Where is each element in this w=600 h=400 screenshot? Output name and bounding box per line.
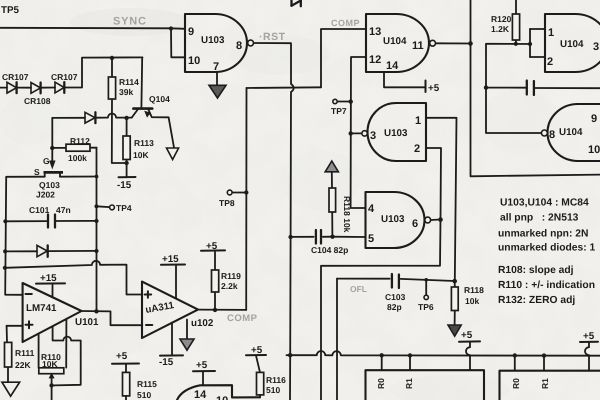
svg-text:CR108: CR108	[24, 96, 51, 106]
wire R110 left terminal	[38, 335, 40, 368]
svg-text:+5: +5	[583, 331, 595, 342]
svg-text:14: 14	[386, 60, 399, 72]
power -15 U102	[160, 323, 183, 356]
wire diode row 1	[0, 57, 143, 87]
ground below R118b	[448, 325, 461, 336]
wire U104 pin 12 to latch	[351, 57, 366, 208]
wire U104 pins1-2 tie	[530, 29, 545, 57]
svg-text:13: 13	[369, 26, 381, 38]
net label N top edge	[292, 0, 301, 6]
diode row 2	[85, 112, 95, 123]
wire U103 pin 9	[171, 27, 185, 30]
svg-text:TP6: TP6	[418, 302, 434, 312]
svg-text:R1: R1	[404, 378, 414, 389]
nand gate U103 pins 1,2,3 mirrored	[362, 103, 426, 161]
node box B pins	[380, 353, 413, 358]
svg-text:7: 7	[213, 61, 219, 73]
svg-text:unmarked npn: 2N: unmarked npn: 2N	[498, 229, 588, 240]
wire bottom rail with hops	[287, 351, 600, 356]
svg-text:C103: C103	[385, 292, 406, 302]
gate bottom partial pins 14,10	[177, 385, 260, 400]
svg-text:R1: R1	[540, 378, 550, 389]
wire COMP horizontal y88	[247, 86, 322, 89]
test point TP4	[110, 205, 115, 210]
svg-text:47n: 47n	[56, 205, 71, 215]
svg-text:SYNC: SYNC	[113, 16, 147, 28]
svg-text:82p: 82p	[387, 302, 402, 312]
wire U104 pin 14 to +5	[384, 72, 426, 92]
svg-text:U104: U104	[559, 127, 583, 138]
svg-text:G: G	[43, 156, 50, 166]
svg-text:Q103: Q103	[39, 180, 60, 190]
svg-text:R0: R0	[376, 378, 386, 389]
svg-text:R118 10k: R118 10k	[342, 196, 352, 233]
svg-text:OFL: OFL	[350, 284, 367, 294]
svg-text:+5: +5	[116, 351, 128, 362]
potentiometer R110 wiper arrow	[49, 373, 55, 388]
nand gate U104 pin 8 mirrored	[541, 104, 600, 161]
ground Q104 emitter	[167, 148, 179, 160]
svg-text:2: 2	[414, 143, 420, 155]
svg-text:U104: U104	[560, 39, 584, 50]
wire TP4 stub	[94, 204, 109, 208]
node line B / R118b	[452, 279, 457, 284]
diode CR107 second	[55, 82, 64, 93]
wire diode row 3 leads	[5, 250, 96, 253]
svg-text:COMP: COMP	[227, 313, 258, 324]
node C101 ends	[3, 219, 98, 224]
wire x52 vertical	[50, 118, 54, 150]
node pin11/long vertical	[468, 41, 473, 46]
svg-text:100k: 100k	[68, 153, 87, 163]
op-amp U102 uA311	[142, 282, 198, 338]
power +15 U101	[36, 283, 65, 297]
resistor R116	[257, 372, 264, 397]
resistor R113	[123, 136, 130, 160]
resistor R120	[512, 14, 519, 40]
nand gate U104 pins 1,2,3	[545, 14, 600, 72]
svg-text:+15: +15	[40, 273, 57, 284]
svg-text:u102: u102	[191, 318, 214, 329]
node R113 bottom	[124, 161, 128, 165]
wire U103 pin6 output stub	[431, 217, 443, 222]
svg-text:R108: slope adj: R108: slope adj	[498, 265, 574, 276]
svg-text:U103,U104 : MC84: U103,U104 : MC84	[500, 198, 589, 209]
svg-text:R114: R114	[119, 77, 139, 87]
wire TP7 stub	[337, 99, 353, 103]
wire R112 leads	[52, 147, 96, 149]
wire OFL line B through C103 TP6	[337, 279, 455, 400]
svg-text:unmarked diodes: 1: unmarked diodes: 1	[498, 243, 596, 254]
power +5 R115	[112, 364, 139, 373]
ground below R111	[2, 382, 20, 396]
svg-text:-15: -15	[117, 180, 132, 191]
svg-text:14: 14	[194, 389, 207, 400]
jfet Q103	[44, 148, 64, 177]
power +5 box C	[580, 341, 598, 343]
svg-text:9: 9	[591, 113, 597, 125]
svg-text:R115: R115	[137, 379, 157, 389]
wire R118 stems and arrow stem	[331, 172, 334, 237]
svg-text:+5: +5	[251, 345, 263, 356]
svg-text:R110 : +/- indication: R110 : +/- indication	[498, 280, 595, 291]
svg-text:10K: 10K	[133, 150, 149, 160]
svg-text:10: 10	[188, 55, 200, 67]
wire U103 pin 10	[171, 28, 185, 57]
wire box C pins	[515, 356, 544, 371]
resistor R114	[108, 77, 115, 99]
wire R119 stems	[214, 252, 216, 310]
power +15 U102	[161, 265, 185, 299]
resistor R118 lower	[451, 287, 458, 311]
svg-text:CR107: CR107	[2, 72, 29, 82]
svg-text:1: 1	[415, 115, 421, 127]
svg-text:9: 9	[188, 26, 194, 38]
svg-text:U103: U103	[201, 35, 225, 46]
svg-text:U104: U104	[383, 36, 407, 47]
power +5 gate pin14	[193, 371, 215, 385]
svg-text:+5: +5	[206, 241, 218, 252]
nand gate U103 pins 4,5,6	[366, 192, 431, 248]
svg-text:CR107: CR107	[51, 72, 78, 82]
power +5 box B	[459, 340, 480, 342]
svg-text:C101: C101	[29, 205, 50, 215]
resistor R118 latch	[329, 188, 336, 212]
wire C101 leads	[5, 220, 96, 222]
wire cap row right to edge	[534, 87, 600, 89]
svg-text:R0: R0	[511, 378, 521, 389]
node y266 left end	[3, 266, 7, 270]
op-amp plus sign U101	[26, 321, 33, 328]
wire COMP vertical to U102 output	[245, 88, 247, 310]
capacitor C101	[48, 215, 55, 228]
wire R110 offset stems and wiper loop	[53, 320, 81, 386]
ground U103 pin 7	[209, 85, 226, 98]
wire cap row left	[486, 87, 526, 89]
test point TP6	[424, 295, 428, 299]
node cap row	[484, 85, 488, 89]
nand gate U104 pins 13,12,11	[366, 14, 436, 72]
wire U103 pin 7 stem	[216, 72, 218, 85]
op-amp U101 LM741	[23, 283, 82, 342]
box B resistor network	[366, 370, 485, 400]
svg-text:+5: +5	[428, 83, 440, 94]
wire R120 stems	[515, 0, 517, 44]
svg-text:1: 1	[548, 27, 554, 39]
svg-text:6: 6	[412, 218, 418, 230]
capacitor C104	[316, 230, 321, 244]
wire U103 pin3 bubble stub	[351, 132, 362, 134]
svg-text:U103: U103	[381, 214, 405, 225]
node U103 pin3 output junction	[349, 131, 353, 135]
potentiometer R110 body	[39, 368, 64, 374]
svg-text:10K: 10K	[42, 359, 58, 369]
diode CR108	[31, 83, 41, 94]
wire U102 output COMP	[198, 308, 246, 312]
svg-text:10: 10	[216, 395, 228, 400]
node C104/R118	[330, 235, 334, 239]
op-amp minus sign U101	[26, 293, 32, 295]
diode row 3	[37, 245, 48, 256]
svg-text:2.2k: 2.2k	[221, 281, 238, 291]
svg-text:+5: +5	[461, 330, 473, 341]
svg-text:R120: R120	[491, 14, 512, 24]
diode CR107 first	[7, 82, 17, 93]
svg-text:5: 5	[368, 233, 374, 245]
svg-text:LM741: LM741	[26, 303, 57, 314]
resistor R119	[212, 270, 219, 292]
ground U102	[180, 320, 194, 351]
power +5 above R119	[201, 249, 225, 251]
svg-text:R118: R118	[464, 285, 484, 295]
svg-text:U101: U101	[75, 317, 99, 328]
svg-text:Q104: Q104	[149, 94, 170, 104]
wire U103 pin2 cross-couple	[426, 148, 441, 220]
wire +5 stem into box C with hop	[585, 343, 589, 371]
wire long vertical x470 to bottom right rail	[471, 0, 600, 176]
capacitor C103	[392, 274, 399, 288]
svg-text:J202: J202	[36, 190, 55, 200]
wire corner net to U104 pins 1-2	[486, 44, 541, 133]
wire +5 stem into box B with hop	[466, 342, 470, 370]
svg-text:22K: 22K	[15, 360, 31, 370]
test point TP7	[333, 99, 337, 103]
wire TP8 stub	[232, 190, 249, 194]
nand gate U103 pins 9,10,8	[185, 14, 254, 72]
wire U103 pin5 row with C104	[291, 236, 366, 238]
svg-text:S: S	[34, 167, 40, 177]
wire jfet source to minus input	[5, 177, 45, 295]
capacitor top-right	[527, 81, 534, 96]
svg-text:1.2K: 1.2K	[491, 24, 510, 34]
wire wiper to bottom edge	[51, 385, 53, 400]
svg-text:-15: -15	[159, 357, 174, 368]
wire R113 stems	[126, 118, 128, 177]
wire jfet drain	[60, 175, 98, 179]
svg-text:10: 10	[588, 144, 600, 156]
wire output6 net down-left to bottom	[321, 220, 441, 400]
wire U103 pin1 cross-couple	[426, 118, 457, 281]
wire U101 output to U102 minus	[82, 309, 143, 325]
wire R114 stems down to -15	[112, 58, 127, 163]
svg-text:2: 2	[547, 56, 553, 68]
svg-text:510: 510	[266, 385, 280, 395]
wire R118b stems	[454, 281, 456, 324]
svg-text:8: 8	[236, 40, 242, 52]
node R120 bottom	[514, 42, 518, 46]
wire U101 plus input to R111	[7, 326, 23, 382]
svg-text:U103: U103	[384, 128, 408, 139]
svg-text:3: 3	[370, 130, 376, 142]
wire U104 pin 11 output	[436, 42, 471, 44]
svg-text:11: 11	[412, 40, 424, 52]
node tie mid	[528, 42, 532, 46]
box C resistor network	[500, 371, 600, 400]
svg-text:39k: 39k	[119, 87, 133, 97]
svg-text:3: 3	[593, 41, 599, 53]
transistor Q104	[132, 57, 174, 147]
svg-text:TP5: TP5	[1, 5, 20, 16]
svg-text:R132: ZERO adj: R132: ZERO adj	[498, 295, 575, 306]
svg-text:TP7: TP7	[331, 106, 347, 116]
wire U104 pin 13	[321, 29, 366, 87]
node box C pins	[513, 353, 547, 358]
svg-text:12: 12	[369, 54, 381, 66]
power +5 R116	[246, 355, 266, 372]
op-amp plus sign U102	[145, 291, 152, 298]
power -15 bar under R113	[119, 176, 136, 178]
svg-text:TP8: TP8	[219, 198, 235, 208]
svg-text:R111: R111	[15, 348, 35, 358]
node diode row3 ends	[3, 249, 99, 254]
test point TP8	[227, 190, 232, 195]
svg-text:+5: +5	[196, 360, 208, 371]
svg-text:8: 8	[549, 129, 555, 141]
svg-text:C104 82p: C104 82p	[311, 245, 348, 255]
wire plus-input net y266 with hop to U102 plus	[5, 261, 142, 295]
wire TP5/SYNC net	[0, 27, 171, 30]
node RST/rail junction	[288, 353, 292, 357]
wire RST net from U103 pin 8 down to bottom	[254, 43, 294, 400]
svg-text:all pnp : 2N513: all pnp : 2N513	[500, 213, 579, 224]
resistor R112	[66, 144, 90, 151]
svg-text:·RST: ·RST	[259, 31, 286, 43]
svg-text:R116: R116	[266, 375, 286, 385]
wire x96 vertical R112 to U101 out	[96, 148, 98, 312]
node R114 top tap	[110, 56, 114, 60]
svg-text:R113: R113	[134, 138, 154, 148]
wire box B pins	[382, 355, 410, 370]
node Q104 base / R113 tap	[124, 116, 128, 120]
resistor R111	[5, 342, 12, 367]
svg-text:R112: R112	[70, 136, 90, 146]
svg-text:10k: 10k	[465, 296, 479, 306]
svg-text:510: 510	[137, 390, 151, 400]
op-amp minus sign U102	[146, 324, 152, 326]
arrow above R118	[325, 161, 338, 172]
svg-text:COMP: COMP	[331, 18, 360, 28]
wire diode row 2 with hop	[52, 114, 132, 118]
svg-text:TP4: TP4	[116, 203, 132, 213]
resistor R115	[123, 372, 130, 399]
wire TP6 stub	[424, 278, 428, 295]
svg-text:4: 4	[368, 203, 375, 215]
node RST/C104 junction	[288, 235, 292, 239]
svg-text:+15: +15	[162, 254, 179, 265]
svg-text:R119: R119	[221, 271, 241, 281]
node junction TP5/pin9	[169, 26, 173, 30]
